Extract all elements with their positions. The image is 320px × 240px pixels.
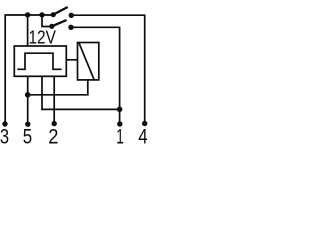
terminal 5 dot [25,122,30,127]
terminal 3 dot [2,121,7,126]
wire: switch S1 output to terminal 4 [74,15,145,121]
switch S1 left contact [51,12,56,17]
svg-text:12V: 12V [29,27,57,48]
switch S1 lever [53,7,67,15]
wire: U1 pin to node B then terminal 1 rail [42,76,120,109]
switch S2 left contact [49,24,54,29]
svg-text:3: 3 [0,124,9,149]
junction node A [25,92,31,98]
wire: node A line from terminal-5 branch to output stage pin [28,80,88,95]
junction dot on rail above S2 [39,12,44,17]
wire: U1 pin to terminal 2 [53,76,55,121]
svg-text:5: 5 [23,124,32,149]
wire: switch S2 output down to terminal 1 [73,27,119,121]
square-wave symbol inside U1 [17,53,61,69]
svg-text:4: 4 [138,124,147,149]
junction dot on rail above U1 [25,12,30,17]
wire: drop from rail to switch S2 left contact [42,15,50,27]
wire: top supply rail with left drop to terminal 3 [5,15,53,122]
switch S1 right contact [69,13,74,18]
svg-text:2: 2 [48,124,58,149]
diagonal of output stage Q1 [79,43,94,80]
wire: link U1 to output stage Q1 [66,59,77,61]
terminal 4 dot [142,121,147,126]
wire: drop from rail to pulse generator top [27,15,29,46]
terminal 1 dot [117,121,122,126]
junction node B [117,107,123,113]
terminal 2 dot [52,121,57,126]
switch S2 right contact [68,25,73,30]
output stage box Q1 [78,43,99,80]
switch S2 lever [52,20,67,26]
svg-text:1: 1 [116,124,124,149]
pulse generator box U1 [14,46,66,76]
wire: U1 pin to terminal 5 [27,76,29,122]
